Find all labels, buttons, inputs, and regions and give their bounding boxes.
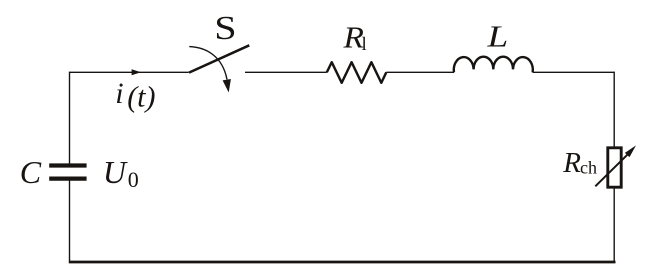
wire: right vertical lower (box to bottom wire) bbox=[613, 187, 615, 261]
wire: switch to resistor R_l bbox=[245, 71, 327, 73]
svg-text:U: U bbox=[103, 154, 128, 190]
wire: left vertical upper (corner to capacitor) bbox=[69, 72, 71, 166]
svg-text:(t): (t) bbox=[127, 81, 155, 114]
switch S blade bbox=[189, 45, 249, 72]
label S bbox=[214, 10, 236, 47]
wire: right vertical upper (corner to rheostat box) bbox=[613, 72, 615, 148]
svg-text:i: i bbox=[115, 77, 123, 110]
wire: top-left horizontal from left corner to switch bbox=[70, 71, 189, 73]
label i(t) current bbox=[115, 77, 155, 114]
svg-text:C: C bbox=[20, 154, 42, 190]
svg-text:ch: ch bbox=[580, 157, 597, 177]
variable resistor diagonal arrow bbox=[595, 145, 636, 186]
wire: bottom thick return wire bbox=[69, 261, 616, 264]
wire: left vertical lower (capacitor to bottom wire) bbox=[69, 179, 71, 262]
label R_ch bbox=[562, 147, 597, 179]
label L bbox=[486, 19, 508, 53]
inductor L coil (4 humps) bbox=[454, 57, 533, 73]
label U_0 bbox=[103, 154, 139, 192]
label C bbox=[20, 154, 42, 190]
wire: resistor to inductor bbox=[386, 71, 454, 73]
svg-text:R: R bbox=[562, 147, 581, 179]
svg-text:L: L bbox=[486, 19, 508, 53]
label R_l bbox=[342, 20, 366, 55]
current direction arrowhead on top wire bbox=[132, 69, 141, 75]
svg-text:l: l bbox=[362, 34, 367, 55]
svg-text:0: 0 bbox=[128, 167, 139, 192]
wire: inductor to top-right corner bbox=[533, 71, 615, 73]
variable resistor R_ch box bbox=[608, 148, 621, 187]
resistor R_l zigzag bbox=[327, 62, 387, 83]
svg-text:S: S bbox=[214, 10, 236, 47]
switch S closing-motion arc arrow bbox=[189, 47, 231, 93]
capacitor C plates bbox=[49, 166, 86, 179]
